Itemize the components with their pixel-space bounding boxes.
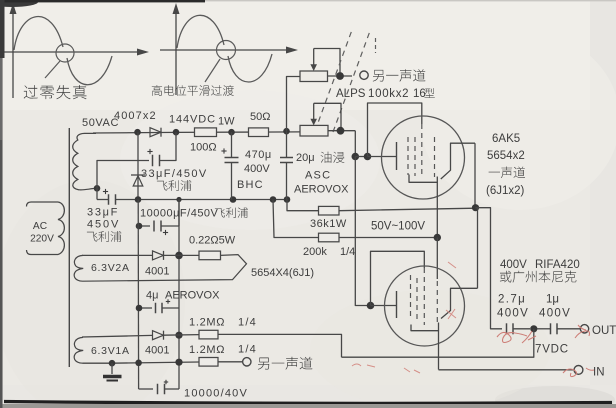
svg-text:IN: IN <box>593 367 605 379</box>
scan border left edge <box>0 0 3 408</box>
wire bias feed: caps junction down and left <box>342 329 534 357</box>
node C5 left at bus <box>136 223 143 230</box>
svg-text:50Ω: 50Ω <box>250 111 270 123</box>
terminal other channel (bottom) <box>243 358 251 366</box>
potentiometer P2 body <box>300 125 328 136</box>
waveform sketch 2 horizontal axis <box>160 49 286 51</box>
svg-text:1.2MΩ: 1.2MΩ <box>189 344 225 356</box>
wire 36k row <box>287 200 319 211</box>
waveform sketch 1 zero-crossing circle <box>56 44 74 62</box>
svg-text:AC: AC <box>33 221 47 232</box>
svg-text:144VDC: 144VDC <box>169 114 216 126</box>
resistor R1 100 ohm <box>195 128 217 137</box>
wire C9 to OUT terminal <box>557 328 580 330</box>
tube V1 envelope (6AK5) <box>382 116 465 199</box>
svg-text:4007x2: 4007x2 <box>114 110 157 122</box>
node 6.3V2A diode junction <box>175 252 183 260</box>
wire V2 plate riser to plate node <box>477 208 479 289</box>
label another channel (top) <box>373 69 426 81</box>
svg-text:4μ: 4μ <box>146 290 158 302</box>
node top rail at 20u/pot riser <box>283 128 290 135</box>
label or Guangzhou Bennic <box>500 271 577 283</box>
wire rail to lower pot P2 <box>299 130 301 132</box>
capacitor C1 33uF/450V <box>152 155 154 167</box>
wire grid bus down to V2 <box>355 157 370 306</box>
wire to other-channel terminal <box>218 361 242 363</box>
label Philips (left column) <box>87 231 122 242</box>
wire P2 right end to node <box>328 130 355 132</box>
node C6 left at bus <box>136 305 143 312</box>
svg-text:50V~100V: 50V~100V <box>371 221 425 233</box>
capacitor C3 470uF/400V <box>231 132 233 157</box>
waveform sketch 2 pointer line <box>205 59 220 82</box>
svg-text:AEROVOX: AEROVOX <box>165 290 220 302</box>
capacitor C7 10000/40V <box>139 388 153 390</box>
svg-text:4001: 4001 <box>145 345 169 357</box>
wire riser rail to upper pot <box>287 77 301 132</box>
node output cap junction <box>530 325 537 332</box>
svg-text:BHC: BHC <box>237 179 264 191</box>
resistor R4 1.2M ohm (to line) <box>164 334 200 337</box>
node bottom rail at doubler bus <box>135 196 142 203</box>
diode D4 4001 (6.3V1A) <box>153 331 164 340</box>
wire P2 wiper loop <box>314 103 341 130</box>
node V2 grid junction <box>367 302 375 310</box>
svg-text:AEROVOX: AEROVOX <box>294 184 349 196</box>
wire heater bus x=179 <box>178 200 180 390</box>
potentiometer P1 (other channel) body <box>300 71 328 82</box>
transformer winding 6.3V1A brace <box>74 337 83 363</box>
node P2 output <box>337 127 345 135</box>
wire V1 plate riser <box>474 143 476 208</box>
waveform sketch 2 zero-crossing circle <box>217 41 236 60</box>
svg-text:(6J1x2): (6J1x2) <box>486 185 525 197</box>
svg-text:1/4: 1/4 <box>340 246 355 258</box>
svg-text:5654X4(6J1): 5654X4(6J1) <box>251 267 314 279</box>
scan border bottom bar <box>4 402 612 404</box>
resistor R7 200k 1/4 <box>319 233 340 242</box>
svg-text:400V: 400V <box>500 259 527 271</box>
label Philips (mid) <box>157 180 192 191</box>
node V1 cathode / 200k junction <box>434 234 441 241</box>
tube V2 internal grid dashes <box>410 275 412 320</box>
waveform sketch 1 pointer line <box>45 61 60 78</box>
svg-text:400V: 400V <box>539 308 571 320</box>
wire C1 to rail node <box>160 132 177 160</box>
svg-text:16: 16 <box>413 88 426 100</box>
transformer T1 primary winding AC 220V <box>27 202 65 255</box>
wire P2 output down to grid row <box>354 131 356 157</box>
svg-text:100Ω: 100Ω <box>190 142 217 154</box>
tube V2 envelope <box>385 266 465 346</box>
svg-text:1W: 1W <box>218 116 235 128</box>
node bottom lead at bus x=138 <box>135 360 142 367</box>
red pen marks near V2 <box>404 262 456 373</box>
svg-text:RIFA420: RIFA420 <box>535 259 580 271</box>
svg-text:ASC: ASC <box>305 170 331 182</box>
svg-text:36k1W: 36k1W <box>310 218 347 230</box>
gang link dashed stub <box>375 38 377 53</box>
tube V1 plate <box>441 143 475 179</box>
wire junction to C9 <box>537 328 551 330</box>
wire grid row link <box>355 156 367 158</box>
svg-text:100kx2: 100kx2 <box>368 88 409 100</box>
svg-text:5654x2: 5654x2 <box>487 150 525 162</box>
wire 36k to plate node <box>339 208 476 211</box>
svg-text:6.3V2A: 6.3V2A <box>91 262 130 274</box>
wire P1 wiper loop <box>314 49 340 77</box>
svg-text:470μ: 470μ <box>245 149 272 161</box>
wire V2 top entry loop <box>371 251 425 305</box>
node grid row left <box>352 153 360 161</box>
red pen mark at IN terminal <box>563 368 594 377</box>
label gao-dian-wei smooth transition <box>152 85 234 96</box>
gang link dashed line b <box>333 31 370 132</box>
tube V2 plate <box>441 288 478 318</box>
capacitor C6 4uF AEROVOX <box>139 307 152 309</box>
resistor R5 1.2M ohm (to other channel) <box>199 358 218 367</box>
waveform sketch 1 sine curve <box>14 17 112 85</box>
capacitor C9 1uF/400V <box>550 323 552 334</box>
svg-text:2.7μ: 2.7μ <box>498 294 526 306</box>
wire/banner to 5654 heaters (pennant) <box>83 255 247 282</box>
resistor R6 36k 1W <box>319 206 340 215</box>
svg-text:33μF/450V: 33μF/450V <box>141 168 208 180</box>
svg-text:200k: 200k <box>303 246 327 258</box>
wire top rail 144VDC <box>93 131 176 134</box>
svg-text:220V: 220V <box>30 234 54 245</box>
wire 1.2M row jog <box>218 334 342 357</box>
node: 50VAC winding bottom junction <box>94 185 101 192</box>
capacitor C2 33uF/450V on bottom rail <box>97 199 108 201</box>
potentiometer P1 wiper arrow <box>313 49 315 67</box>
gang link dashed line a <box>315 30 352 131</box>
resistor R2 50 ohm <box>249 128 269 137</box>
svg-text:OUT: OUT <box>592 325 616 337</box>
svg-text:450V: 450V <box>87 219 120 231</box>
wire C8 to junction <box>513 328 530 330</box>
capacitor C5 10000uF/450V <box>139 225 150 227</box>
svg-text:1/4: 1/4 <box>238 344 257 356</box>
wire cathode node into V2 (dashed electrode) <box>436 238 438 280</box>
svg-text:6.3V1A: 6.3V1A <box>91 345 130 357</box>
waveform sketch 2 vertical axis <box>175 8 177 95</box>
svg-text:6AK5: 6AK5 <box>492 133 520 145</box>
capacitor C4 20uF oil ASC AEROVOX <box>286 131 288 157</box>
node ground tap <box>109 360 116 367</box>
transformer T1 secondary winding 50VAC <box>73 133 97 190</box>
terminal IN <box>574 366 583 375</box>
svg-text:7VDC: 7VDC <box>535 344 569 356</box>
svg-text:ALPS: ALPS <box>336 88 366 100</box>
wire 6.3V1A top lead <box>82 335 153 337</box>
wire V1 top entry loop <box>368 103 422 157</box>
wire 6.3V1A bottom lead / other-channel row <box>83 362 113 364</box>
label guo-ling-shi-zhen (zero-crossing distortion) <box>24 85 87 99</box>
wire V2 cathode drop <box>438 331 440 370</box>
scan border top edge <box>0 0 38 7</box>
diode D1 4007x2 <box>150 128 161 137</box>
svg-text:0.22Ω5W: 0.22Ω5W <box>189 235 236 247</box>
node grid row right <box>364 153 372 161</box>
wire winding bottom to C1 33uF <box>97 161 149 189</box>
transformer winding 6.3V2A brace <box>74 255 83 281</box>
label another channel (bottom) <box>258 357 313 370</box>
red pen tick at cap junction <box>522 331 536 343</box>
terminal OUT <box>580 325 588 333</box>
wire plate node to output column <box>476 208 503 329</box>
svg-text:20μ: 20μ <box>296 152 315 164</box>
red pen scribble near 2.7uF cap <box>497 332 527 342</box>
node bottom rail at 20u/36k <box>284 196 291 203</box>
label one channel <box>489 167 525 179</box>
svg-text:400V: 400V <box>244 163 270 175</box>
tube V1 grid bar <box>396 142 398 170</box>
ground symbol <box>111 363 113 374</box>
node bottom rail at 10000uF riser <box>176 197 181 202</box>
svg-text:4001: 4001 <box>145 266 169 278</box>
wire P1 right end to node <box>328 75 353 77</box>
tube V2 cathode <box>411 323 439 331</box>
wire bottom rail <box>138 199 287 201</box>
tube V1 cathode <box>409 175 437 183</box>
resistor R3 0.22 ohm 5W <box>164 254 200 256</box>
transformer T1 core <box>68 128 70 367</box>
node 6.3V1A diode junction <box>175 332 182 339</box>
wire 200k row <box>273 200 319 238</box>
wire V1 cathode drop <box>436 182 438 237</box>
capacitor C8 2.7uF/400V <box>506 323 508 334</box>
red pen mark at OUT terminal <box>575 325 590 338</box>
wire doubler bus x=138 <box>137 132 139 199</box>
potentiometer P2 wiper arrow <box>313 103 315 120</box>
node top rail after D1 <box>173 129 180 136</box>
waveform sketch 2 sine curve <box>177 15 272 82</box>
node top rail at doubler bus <box>134 129 141 136</box>
diode D3 4001 (6.3V2A) <box>153 251 164 260</box>
wire winding bottom drop <box>96 188 98 199</box>
wire 6.3V2A top lead <box>82 254 153 256</box>
red pen mark under bias wire <box>352 364 375 367</box>
svg-text:1/4: 1/4 <box>238 317 257 329</box>
node top rail at 470u branch <box>228 129 235 136</box>
wire cathode to IN terminal <box>439 369 575 371</box>
node P1 output <box>336 72 344 80</box>
svg-text:400V: 400V <box>497 308 529 320</box>
wire doubler bus lower x=138.5 <box>137 200 139 390</box>
svg-text:1μ: 1μ <box>546 294 559 306</box>
terminal other channel (top) <box>360 71 368 79</box>
wire grid row to V1 grid <box>368 156 397 158</box>
tube V2 grid bar <box>396 291 398 318</box>
node plate junction <box>472 204 479 211</box>
tube V1 internal grid dashes <box>407 137 409 175</box>
waveform sketch 1 horizontal axis <box>2 51 137 53</box>
svg-text:33μF: 33μF <box>87 207 119 219</box>
node bottom rail at 470u <box>230 196 237 203</box>
waveform sketch 1 vertical axis <box>12 8 14 98</box>
svg-text:1.2MΩ: 1.2MΩ <box>189 317 225 329</box>
wire V2 grid lead <box>371 305 397 307</box>
wire 200k to cathode node <box>339 237 437 239</box>
diode D2 shunt (33uF doubler diode) <box>131 174 145 176</box>
node bottom lead at bus x=179 <box>175 359 182 366</box>
node bottom rail at 200k drop <box>270 196 277 203</box>
svg-text:10000/40V: 10000/40V <box>184 388 248 400</box>
